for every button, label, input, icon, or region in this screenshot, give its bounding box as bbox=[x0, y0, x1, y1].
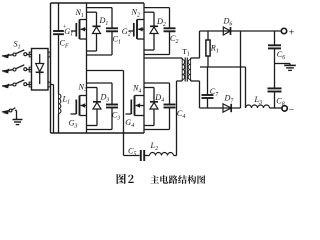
wire N4 sub-rail to C4 bbox=[144, 83, 170, 105]
wire filter branch middle bbox=[58, 34, 60, 94]
wire N2 sub-rail to C2 bbox=[144, 8, 170, 29]
capacitor C6 C8 chain bbox=[268, 31, 282, 108]
wire line C bbox=[200, 66, 246, 68]
wire N3 drain bbox=[86, 71, 88, 96]
diode D6 bbox=[223, 27, 230, 35]
diode D4 bbox=[150, 102, 158, 109]
switch S1 phase B bbox=[2, 65, 32, 74]
wire bottom rail bbox=[51, 132, 145, 134]
wire D7 riser bbox=[240, 31, 242, 108]
capacitor CF bbox=[53, 31, 64, 34]
wire anode line A bbox=[200, 30, 282, 32]
wire L3 to output bbox=[270, 107, 282, 109]
switch S1 phase A bbox=[2, 50, 32, 59]
wire secondary top bbox=[191, 31, 200, 60]
wire D4 anode down bbox=[153, 109, 155, 126]
wire N1 source to midpoint bbox=[86, 39, 88, 71]
diode D2 bbox=[150, 26, 158, 33]
wire left bus bbox=[50, 3, 52, 133]
inductor L2 bbox=[150, 153, 174, 156]
capacitor C1 bbox=[106, 28, 118, 31]
transformer T1 primary bbox=[182, 60, 185, 80]
wire N4 sub-rail to D4 bbox=[144, 88, 154, 102]
wire D3 bottom link bbox=[87, 125, 98, 127]
wire filter branch upper bbox=[58, 3, 60, 31]
transistor N4 bbox=[126, 96, 145, 116]
capacitor C7 bbox=[202, 67, 214, 108]
diode D3 bbox=[93, 102, 101, 109]
transformer T1 core bbox=[185, 58, 187, 82]
wire D4 bottom link bbox=[144, 125, 154, 127]
capacitor C2 bbox=[164, 28, 176, 31]
output terminal minus bbox=[282, 106, 287, 111]
wire D3 anode down bbox=[96, 109, 98, 126]
wire resonant riser bbox=[123, 71, 125, 156]
wire N2 drain bbox=[143, 3, 145, 20]
switch earth lead bbox=[2, 108, 17, 119]
wire C1 down bbox=[111, 31, 113, 55]
wire C4 bottom link bbox=[144, 129, 170, 131]
transistor N1 bbox=[71, 20, 87, 40]
transistor N2 bbox=[129, 20, 145, 40]
transistor N3 bbox=[71, 96, 87, 116]
wire C2 bottom link bbox=[144, 54, 170, 56]
inductor L3 bbox=[246, 105, 270, 108]
wire L2 to riser bbox=[174, 81, 177, 156]
wire filter branch lower bbox=[58, 114, 60, 134]
wire right leg middle bbox=[143, 39, 145, 96]
capacitor C3 bbox=[106, 105, 118, 108]
wire primary bottom bbox=[177, 80, 183, 82]
wire C3 bottom link bbox=[87, 129, 113, 131]
wire N3 sub-rail to D3 bbox=[87, 88, 98, 102]
wire mid rail left leg bbox=[87, 70, 124, 72]
wire N4 source down bbox=[143, 116, 145, 134]
wire line C drop bbox=[245, 67, 247, 108]
wire resonant to C5 bbox=[124, 155, 140, 157]
rectifier diode symbol bbox=[36, 54, 44, 84]
wire N3 source down bbox=[86, 116, 88, 134]
wire N2 sub-rail to D2 bbox=[144, 12, 154, 26]
wire C3 down bbox=[111, 108, 113, 130]
wire N1 drain bbox=[86, 3, 88, 20]
ground symbol output bbox=[284, 65, 296, 70]
wire D1 bottom link bbox=[87, 50, 97, 52]
svg-text:+: + bbox=[289, 28, 295, 39]
wire D2 anode down bbox=[153, 34, 155, 51]
diode D1 bbox=[93, 26, 101, 33]
capacitor C5 bbox=[141, 150, 144, 161]
transformer T1 secondary bbox=[188, 60, 191, 80]
wire N3 sub-rail to C3 bbox=[87, 83, 113, 105]
svg-text:–: – bbox=[288, 104, 294, 114]
inductor L1 bbox=[59, 94, 61, 114]
wire primary top bbox=[144, 58, 182, 60]
caption figure 2 main circuit structure bbox=[117, 174, 206, 184]
resistor R1 bbox=[206, 31, 210, 67]
wire D1 anode down bbox=[96, 34, 98, 52]
rectifier left tabs bbox=[29, 52, 31, 87]
wire ground tee bbox=[275, 64, 291, 66]
wire top rail bbox=[51, 2, 145, 4]
wire C4 down bbox=[169, 108, 171, 130]
wire N1 sub-rail to C1 bbox=[87, 8, 113, 29]
rectifier right tabs bbox=[48, 52, 50, 87]
wire D2 bottom link bbox=[144, 49, 154, 51]
wire rectifier negative return bbox=[51, 85, 54, 134]
capacitor C4 bbox=[164, 105, 176, 108]
wire N1 sub-rail to D1 bbox=[87, 12, 97, 26]
diode D7 bbox=[223, 104, 231, 112]
wire secondary bottom bbox=[191, 80, 200, 109]
wire C2 down bbox=[169, 31, 171, 54]
wire C1 bottom link bbox=[87, 54, 113, 56]
switch S1 phase C bbox=[2, 80, 32, 89]
wire line D bbox=[200, 107, 241, 109]
earth ground symbol bbox=[13, 120, 23, 125]
output terminal plus bbox=[281, 28, 286, 33]
rectifier bridge box bbox=[32, 49, 49, 91]
wire C5 to L2 bbox=[144, 155, 149, 157]
